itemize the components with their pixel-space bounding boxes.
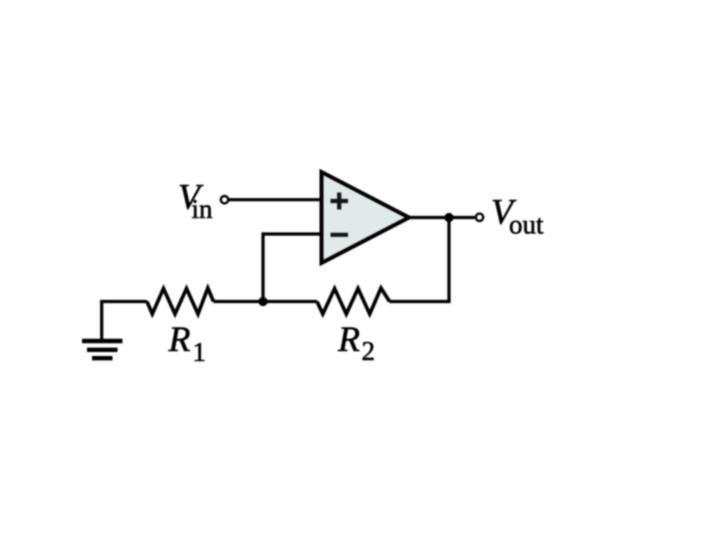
- svg-text:R: R: [337, 319, 360, 359]
- svg-text:out: out: [509, 210, 544, 240]
- wire feedback vertical: [261, 232, 264, 301]
- svg-text:R: R: [168, 319, 191, 359]
- wire op-amp - input horizontal: [263, 232, 323, 235]
- input terminal circle: [221, 196, 228, 203]
- wire R1 right to node A: [214, 300, 264, 303]
- wire ground to R1 left: [100, 300, 147, 303]
- wire op-amp output: [408, 216, 475, 219]
- label Vout: [491, 192, 544, 240]
- svg-text:2: 2: [362, 336, 376, 366]
- wire Vin to op-amp + input: [228, 198, 323, 201]
- wire R2 right to vertical: [390, 300, 451, 303]
- ground: [82, 341, 123, 358]
- svg-text:1: 1: [193, 337, 207, 367]
- wire ground stem: [100, 302, 103, 342]
- output node junction dot: [444, 213, 453, 222]
- op-amp U1: [322, 172, 410, 263]
- label Vin: [178, 177, 213, 224]
- resistor R2: [317, 288, 390, 314]
- node A junction dot: [258, 297, 267, 306]
- label R1: [168, 319, 207, 367]
- output terminal circle: [476, 214, 483, 221]
- svg-text:in: in: [192, 194, 214, 224]
- resistor R1: [147, 288, 214, 314]
- wire node A to R2 left: [263, 300, 317, 303]
- label R2: [337, 319, 375, 366]
- wire output junction down: [447, 218, 450, 302]
